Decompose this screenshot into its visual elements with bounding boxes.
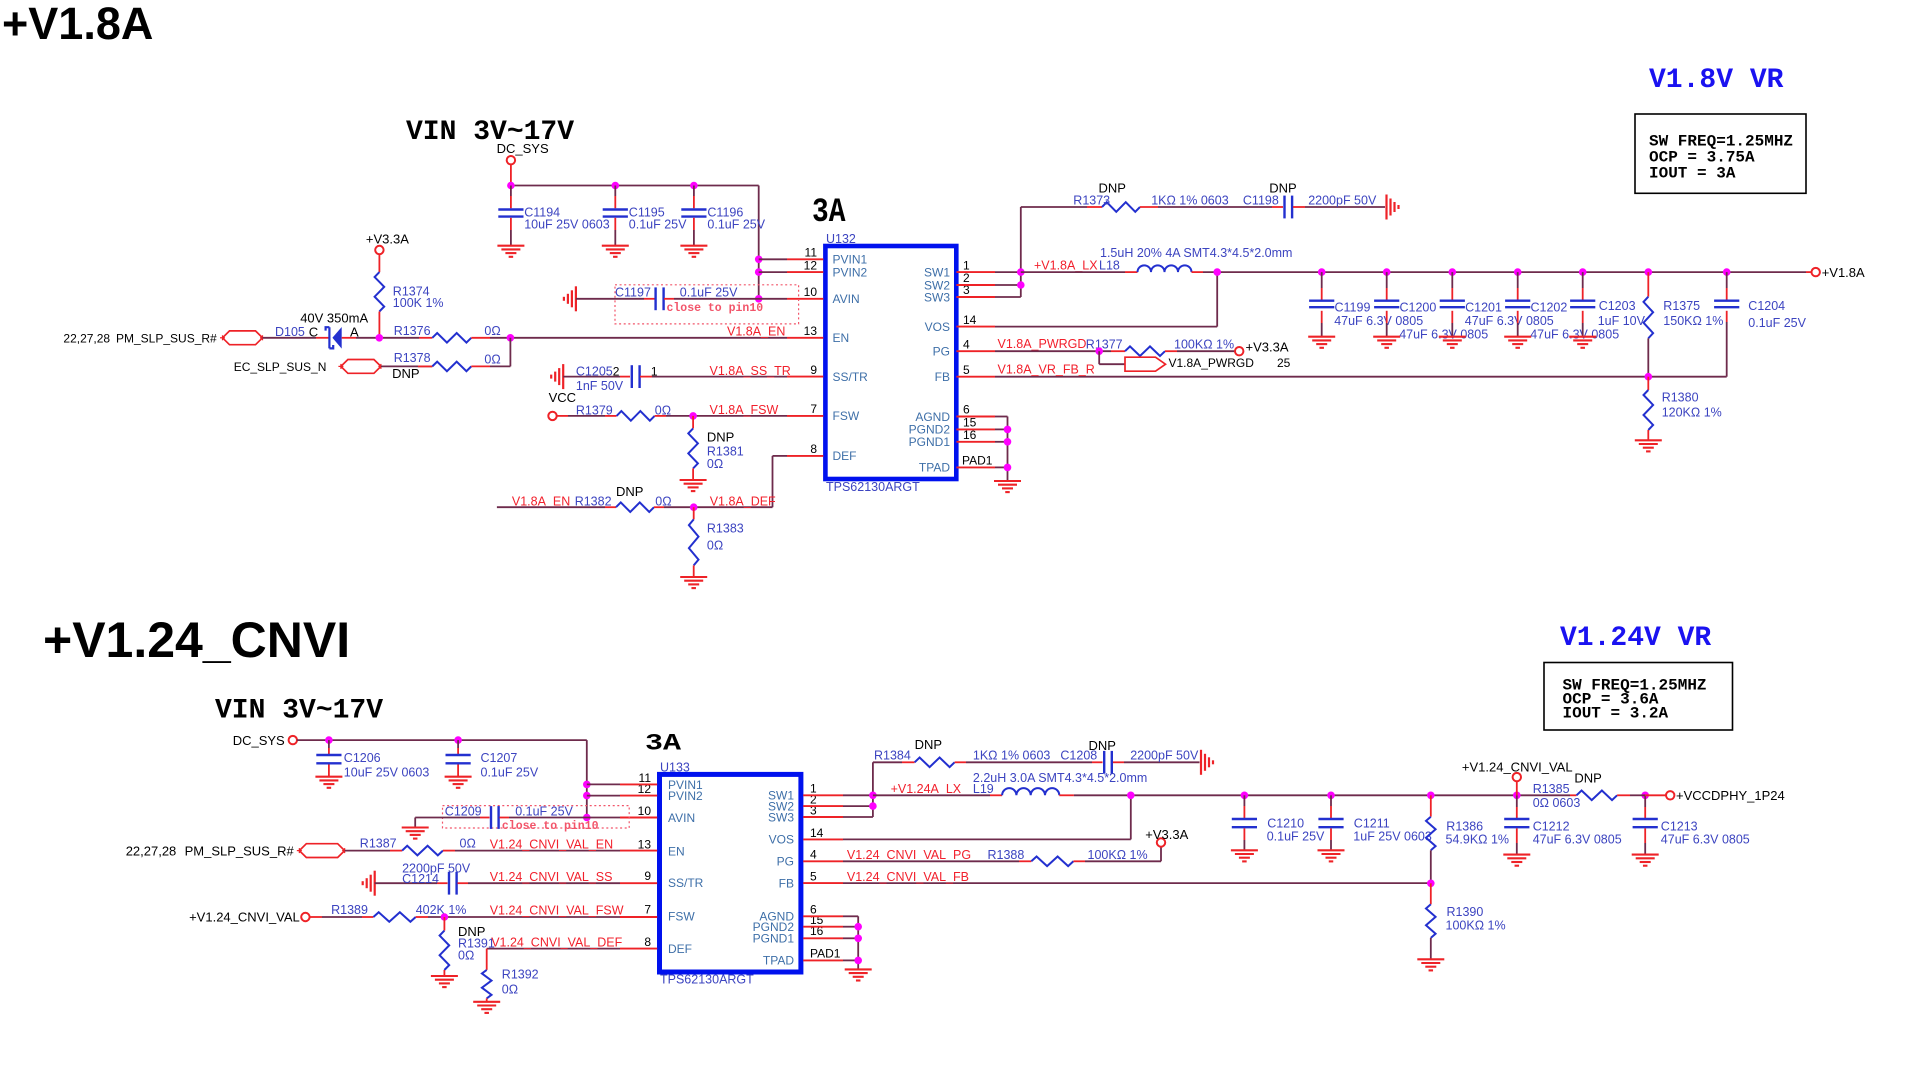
svg-text:+V1.8A: +V1.8A	[1822, 265, 1865, 280]
resistor R1376	[393, 324, 501, 343]
svg-text:DNP: DNP	[392, 366, 419, 381]
net label V1.8A_VR_FB_R	[998, 362, 1095, 376]
ground under C1212	[1503, 855, 1530, 866]
junction dots PGND (bottom)	[854, 923, 862, 964]
svg-text:0.1uF 25V: 0.1uF 25V	[481, 766, 539, 780]
svg-text:DEF: DEF	[833, 449, 857, 463]
inductor L18	[1021, 246, 1322, 272]
connector arrow V1.8A_PWRGD	[1125, 356, 1291, 371]
svg-text:8: 8	[810, 442, 817, 456]
svg-text:100KΩ 1%: 100KΩ 1%	[1088, 848, 1148, 862]
svg-text:100KΩ 1%: 100KΩ 1%	[1446, 919, 1506, 933]
svg-text:120KΩ 1%: 120KΩ 1%	[1662, 406, 1722, 420]
svg-text:FSW: FSW	[668, 910, 695, 924]
svg-text:4: 4	[963, 337, 970, 351]
svg-text:0Ω: 0Ω	[484, 352, 500, 366]
junction R1381/FSW	[689, 412, 697, 420]
net label V1.8A_DEF	[710, 494, 776, 508]
svg-text:+V1.24A_LX: +V1.24A_LX	[891, 782, 962, 796]
U133 right pin names	[753, 789, 795, 968]
svg-text:13: 13	[638, 837, 652, 851]
svg-text:100K 1%: 100K 1%	[393, 296, 444, 310]
U133 pin numbers	[638, 771, 841, 961]
svg-text:VCC: VCC	[549, 390, 576, 405]
junction dots +V1.8A rail	[1318, 268, 1731, 276]
svg-text:C1203: C1203	[1599, 299, 1636, 313]
svg-text:0.1uF 25V: 0.1uF 25V	[1748, 316, 1806, 330]
net label V1.8A_EN	[727, 325, 785, 339]
ground under C1206	[315, 777, 342, 788]
wire FSW net to pin 7	[666, 415, 787, 417]
capacitor C1198 (DNP snubber)	[1158, 181, 1385, 219]
ground at C1209	[402, 828, 429, 839]
node EC_SLP_SUS_N	[234, 360, 384, 374]
capacitor C1200	[1374, 272, 1488, 341]
svg-text:1KΩ 1% 0603: 1KΩ 1% 0603	[973, 749, 1051, 763]
wire AGND/PGND group (bottom)	[843, 916, 858, 969]
junction R1378/EN	[507, 334, 515, 342]
net label +V1.8A_LX	[1034, 258, 1098, 272]
svg-text:C1207: C1207	[481, 751, 518, 765]
title +V1.8A	[2, 0, 153, 49]
ground under R1392	[473, 1002, 500, 1013]
svg-text:2200pF 50V: 2200pF 50V	[1130, 749, 1199, 763]
svg-text:3A: 3A	[812, 194, 846, 232]
svg-text:SS/TR: SS/TR	[668, 876, 704, 890]
capacitor C1211	[1318, 795, 1431, 850]
svg-text:14: 14	[810, 826, 824, 840]
wire PM_SLP_SUS_R# to diode	[263, 337, 330, 339]
capacitor C1213	[1633, 795, 1750, 854]
svg-text:DNP: DNP	[915, 737, 942, 752]
svg-text:DC_SYS: DC_SYS	[497, 141, 549, 156]
wire VOS sense (top)	[995, 272, 1217, 327]
svg-text:FSW: FSW	[833, 409, 860, 423]
svg-text:150KΩ 1%: 150KΩ 1%	[1663, 314, 1723, 328]
svg-text:C1201: C1201	[1465, 301, 1502, 315]
svg-text:U132: U132	[826, 232, 856, 246]
svg-text:10uF 25V 0603: 10uF 25V 0603	[344, 766, 430, 780]
net label V1.24_CNVI_VAL_FB	[847, 870, 969, 884]
svg-text:+V1.24_CNVI: +V1.24_CNVI	[43, 612, 350, 668]
junction dots on DC_SYS bus (top)	[507, 182, 698, 190]
capacitor C1205	[563, 364, 787, 393]
svg-text:1: 1	[651, 364, 658, 378]
svg-text:12: 12	[804, 258, 818, 272]
wire SW1/SW2/SW3 to LX node	[995, 207, 1021, 297]
svg-text:1uF 25V 0603: 1uF 25V 0603	[1353, 830, 1432, 844]
svg-text:C1213: C1213	[1661, 820, 1698, 834]
svg-text:DNP: DNP	[1089, 738, 1116, 753]
svg-text:0Ω: 0Ω	[655, 494, 671, 508]
capacitor C1203	[1570, 272, 1646, 336]
capacitor C1208 (DNP snubber)	[966, 738, 1200, 774]
svg-text:IOUT = 3A: IOUT = 3A	[1649, 165, 1736, 183]
svg-text:3A: 3A	[645, 731, 681, 757]
svg-text:5: 5	[810, 870, 817, 884]
svg-text:TPAD: TPAD	[919, 461, 950, 475]
wire +V1.8A output rail	[1322, 271, 1812, 273]
svg-text:100KΩ 1%: 100KΩ 1%	[1174, 338, 1234, 352]
IC U133 TPS62130ARGT	[660, 760, 801, 986]
svg-text:1nF 50V: 1nF 50V	[576, 379, 624, 393]
svg-text:EN: EN	[833, 331, 850, 345]
svg-text:C1206: C1206	[344, 751, 381, 765]
U133 left pin stubs	[620, 784, 657, 948]
svg-text:1.5uH 20% 4A SMT4.3*4.5*2.0mm: 1.5uH 20% 4A SMT4.3*4.5*2.0mm	[1100, 246, 1292, 260]
svg-text:22,27,28: 22,27,28	[63, 331, 110, 345]
wire PVIN2 (top)	[759, 271, 787, 273]
svg-text:C1199: C1199	[1335, 301, 1371, 315]
svg-text:D105: D105	[275, 325, 305, 339]
net label V1.24_CNVI_VAL_EN	[490, 837, 613, 851]
resistor R1381 (DNP)	[688, 416, 743, 480]
svg-text:C1209: C1209	[445, 805, 482, 819]
svg-text:DNP: DNP	[1099, 181, 1126, 196]
terminal VCC (FSW input)	[548, 412, 605, 420]
resistor R1383	[689, 507, 744, 577]
U133 left pin names	[668, 778, 704, 956]
svg-text:SW3: SW3	[768, 810, 794, 824]
svg-text:8: 8	[644, 935, 651, 949]
svg-text:54.9KΩ 1%: 54.9KΩ 1%	[1446, 833, 1510, 847]
net label V1.24_CNVI_VAL_FSW	[490, 904, 624, 918]
capacitor C1196	[681, 186, 765, 246]
svg-text:V1.8A_VR_FB_R: V1.8A_VR_FB_R	[998, 362, 1095, 376]
ground under C1211	[1318, 850, 1345, 861]
svg-text:+V3.3A: +V3.3A	[1246, 340, 1289, 355]
svg-text:2.2uH 3.0A SMT4.3*4.5*2.0mm: 2.2uH 3.0A SMT4.3*4.5*2.0mm	[973, 771, 1147, 785]
svg-text:L18: L18	[1099, 258, 1120, 272]
svg-text:PVIN2: PVIN2	[833, 265, 868, 279]
svg-text:V1.24_CNVI_VAL_EN: V1.24_CNVI_VAL_EN	[490, 837, 613, 851]
svg-text:PGND1: PGND1	[753, 932, 795, 946]
junction dots PVIN1/PVIN2/AVIN (bottom)	[583, 781, 591, 822]
wire DC_SYS input bus (top)	[511, 186, 759, 299]
svg-text:C1200: C1200	[1400, 301, 1437, 315]
svg-text:DNP: DNP	[1574, 770, 1601, 785]
svg-text:0.1uF 25V: 0.1uF 25V	[515, 805, 573, 819]
resistor R1390	[1426, 883, 1506, 959]
ground under C1196	[680, 246, 707, 257]
svg-text:R1382: R1382	[575, 494, 612, 508]
resistor R1392	[482, 968, 539, 1002]
svg-text:2: 2	[613, 364, 620, 378]
capacitor C1199	[1309, 272, 1423, 336]
svg-text:AVIN: AVIN	[833, 292, 860, 306]
svg-text:C1212: C1212	[1533, 820, 1570, 834]
svg-text:0.1uF 25V: 0.1uF 25V	[1267, 830, 1325, 844]
svg-text:R1376: R1376	[394, 324, 431, 338]
svg-text:SW3: SW3	[924, 290, 950, 304]
svg-text:0Ω: 0Ω	[502, 983, 518, 997]
svg-text:AVIN: AVIN	[668, 811, 695, 825]
capacitor C1197	[576, 286, 787, 311]
svg-text:DEF: DEF	[668, 942, 692, 956]
svg-text:R1392: R1392	[502, 968, 539, 982]
junction dots SW1 SW2 (bottom)	[869, 792, 877, 810]
ground at TPAD (top)	[994, 481, 1021, 492]
ground under C1199	[1308, 337, 1335, 348]
capacitor C1214	[375, 862, 620, 895]
svg-text:VOS: VOS	[925, 320, 950, 334]
svg-text:DNP: DNP	[1269, 181, 1296, 196]
ground under C1200	[1373, 337, 1400, 348]
net label V1.8A_EN (left stub)	[512, 494, 570, 508]
terminal +VCCDPHY_1P24	[1645, 788, 1785, 803]
junction R1391/FSW	[441, 913, 449, 921]
svg-text:R1390: R1390	[1447, 905, 1484, 919]
ground under C1201	[1439, 337, 1466, 348]
svg-text:TPAD: TPAD	[763, 954, 794, 968]
resistor R1389	[331, 903, 620, 922]
svg-text:C: C	[309, 325, 318, 340]
inductor L19	[873, 771, 1245, 796]
svg-text:C1214: C1214	[402, 872, 439, 886]
ground under C1202	[1504, 337, 1531, 348]
svg-text:R1389: R1389	[331, 903, 368, 917]
svg-text:FB: FB	[779, 876, 794, 890]
terminal +V3.3A (PG pullup)	[1235, 340, 1289, 356]
svg-text:1KΩ 1% 0603: 1KΩ 1% 0603	[1151, 194, 1229, 208]
resistor R1373 (DNP snubber)	[1021, 181, 1229, 212]
resistor R1374	[375, 272, 444, 338]
U132 right pin names	[909, 265, 951, 474]
wire FB net (top)	[995, 376, 1727, 378]
svg-text:DC_SYS: DC_SYS	[233, 733, 285, 748]
svg-text:PGND1: PGND1	[909, 435, 951, 449]
svg-text:AGND: AGND	[915, 410, 950, 424]
svg-text:V1.8A_PWRGD: V1.8A_PWRGD	[998, 337, 1087, 351]
junction dots PGND (top)	[1004, 426, 1012, 472]
svg-text:EC_SLP_SUS_N: EC_SLP_SUS_N	[234, 360, 327, 374]
svg-text:40V 350mA: 40V 350mA	[300, 311, 368, 326]
U132 left pin names	[833, 253, 869, 464]
svg-text:V1.24_CNVI_VAL_SS: V1.24_CNVI_VAL_SS	[490, 870, 613, 884]
svg-text:V1.8A_FSW: V1.8A_FSW	[710, 403, 779, 417]
wire FB net (bottom)	[843, 882, 1431, 884]
svg-text:U133: U133	[660, 760, 690, 774]
spec box V1.24V VR	[1544, 663, 1733, 731]
svg-text:C1205: C1205	[576, 364, 613, 378]
svg-text:EN: EN	[668, 844, 685, 858]
svg-text:VOS: VOS	[769, 833, 794, 847]
svg-text:4: 4	[810, 848, 817, 862]
net label +V1.24A_LX	[891, 782, 962, 796]
svg-text:R1375: R1375	[1663, 299, 1700, 313]
junction PG/PWRGD branch	[1095, 347, 1103, 355]
wire diode anode to EN net	[342, 337, 393, 339]
svg-text:V1.24_CNVI_VAL_FB: V1.24_CNVI_VAL_FB	[847, 870, 969, 884]
resistor R1382 (DNP)	[575, 484, 672, 512]
wire V1.24_CNVI_VAL_DEF net	[487, 949, 620, 970]
dotted box close to pin10 (bottom)	[443, 806, 630, 828]
svg-text:C1210: C1210	[1267, 817, 1304, 831]
label VCC	[549, 390, 576, 405]
svg-text:47uF 6.3V 0805: 47uF 6.3V 0805	[1661, 833, 1750, 847]
wire SW1/SW2/SW3 to LX node (bottom)	[843, 762, 873, 817]
capacitor C1207	[446, 740, 539, 779]
svg-text:+V3.3A: +V3.3A	[1145, 827, 1188, 842]
svg-text:close to pin10: close to pin10	[502, 820, 599, 833]
svg-text:C1202: C1202	[1531, 301, 1568, 315]
junction R1374/EN	[376, 334, 384, 342]
svg-text:V1.8A_EN: V1.8A_EN	[727, 325, 785, 339]
svg-text:DNP: DNP	[707, 430, 734, 445]
svg-text:10: 10	[638, 804, 652, 818]
svg-text:+V1.24_CNVI_VAL: +V1.24_CNVI_VAL	[189, 910, 300, 925]
svg-text:C1204: C1204	[1748, 299, 1785, 313]
capacitor C1202	[1505, 272, 1619, 341]
ground at C1198 (sideways)	[1387, 195, 1399, 220]
junction R1383/DEF	[690, 503, 698, 511]
svg-text:9: 9	[644, 869, 651, 883]
resistor R1388	[843, 847, 1161, 866]
junction dots +V1.24 rail	[1241, 792, 1649, 800]
wire EN net to pin 13	[490, 337, 787, 339]
ground under C1194	[497, 246, 524, 257]
net label close to pin10 (bottom)	[502, 820, 599, 833]
svg-text:14: 14	[963, 313, 977, 327]
resistor R1379	[576, 403, 671, 420]
capacitor C1212	[1504, 795, 1622, 854]
wire PVIN2 (bottom)	[587, 795, 620, 797]
svg-text:TPS62130ARGT: TPS62130ARGT	[660, 973, 754, 987]
terminal DC_SYS (bottom)	[233, 733, 297, 748]
svg-text:0.1uF 25V: 0.1uF 25V	[680, 286, 738, 300]
svg-text:7: 7	[810, 402, 817, 416]
U132 right pin stubs	[956, 272, 995, 467]
U132 pin numbers	[804, 246, 993, 468]
ground under R1391	[431, 976, 458, 987]
wire PVIN1 (top)	[759, 258, 787, 260]
svg-text:V1.8A_EN: V1.8A_EN	[512, 494, 570, 508]
svg-text:FB: FB	[935, 370, 950, 384]
resistor R1385 (DNP)	[1533, 770, 1646, 810]
capacitor C1204	[1714, 272, 1807, 377]
resistor R1384 (DNP snubber)	[873, 737, 1051, 767]
wire DC_SYS input bus (bottom)	[297, 740, 587, 817]
svg-text:+V1.8A: +V1.8A	[2, 0, 153, 49]
wire +V1.24 output rail	[1244, 794, 1570, 796]
junction dots on DC_SYS bus (bottom)	[325, 736, 462, 744]
ground at C1197	[564, 286, 576, 311]
node PM_SLP_SUS_R# (top)	[63, 331, 265, 345]
resistor R1378 (DNP)	[381, 338, 510, 381]
svg-text:R1386: R1386	[1446, 820, 1483, 834]
node PM_SLP_SUS_R# (bottom)	[126, 843, 347, 858]
svg-text:402K 1%: 402K 1%	[416, 903, 467, 917]
svg-text:V1.24_CNVI_VAL_PG: V1.24_CNVI_VAL_PG	[847, 848, 971, 862]
diode D105	[275, 311, 368, 349]
svg-text:47uF 6.3V 0805: 47uF 6.3V 0805	[1465, 314, 1554, 328]
net label V1.8A_FSW	[710, 403, 779, 417]
wire AGND/PGND group (top)	[995, 417, 1008, 482]
svg-text:V1.8A_DEF: V1.8A_DEF	[710, 494, 776, 508]
svg-text:PM_SLP_SUS_R#: PM_SLP_SUS_R#	[185, 843, 295, 858]
svg-text:R1388: R1388	[988, 848, 1025, 862]
svg-text:0Ω: 0Ω	[460, 837, 476, 851]
svg-text:PAD1: PAD1	[962, 454, 993, 468]
svg-text:0Ω: 0Ω	[484, 324, 500, 338]
title VIN 3V~17V (top)	[406, 117, 574, 148]
svg-text:10uF 25V 0603: 10uF 25V 0603	[524, 218, 610, 232]
junction R1375/FB	[1645, 373, 1653, 381]
svg-text:V1.24_CNVI_VAL_DEF: V1.24_CNVI_VAL_DEF	[491, 935, 622, 949]
svg-text:V1.24V VR: V1.24V VR	[1560, 623, 1711, 654]
ground at C1214	[363, 871, 375, 896]
svg-text:6: 6	[963, 403, 970, 417]
terminal +V3.3A (bottom PG pullup)	[1145, 827, 1188, 847]
svg-text:V1.8A_PWRGD: V1.8A_PWRGD	[1169, 356, 1255, 370]
title VIN 3V~17V (bottom)	[215, 696, 383, 727]
capacitor C1206	[316, 740, 429, 779]
ground at C1205	[551, 364, 563, 389]
svg-text:0.1uF 25V: 0.1uF 25V	[629, 218, 687, 232]
svg-text:R1384: R1384	[874, 749, 911, 763]
ground under C1195	[602, 246, 629, 257]
svg-text:V1.8A_SS_TR: V1.8A_SS_TR	[710, 364, 791, 378]
svg-text:VIN 3V~17V: VIN 3V~17V	[215, 696, 383, 727]
title +V1.24_CNVI	[43, 612, 350, 668]
terminal +V1.24_CNVI_VAL (FSW input)	[189, 910, 362, 925]
svg-text:PM_SLP_SUS_R#: PM_SLP_SUS_R#	[116, 331, 217, 345]
ground at TPAD (bottom)	[845, 969, 872, 980]
svg-text:R1379: R1379	[576, 403, 613, 417]
svg-text:0Ω: 0Ω	[458, 948, 474, 962]
ground under C1207	[445, 777, 472, 788]
capacitor C1210	[1232, 795, 1325, 850]
svg-text:SS/TR: SS/TR	[833, 370, 869, 384]
svg-text:PVIN2: PVIN2	[668, 789, 703, 803]
svg-text:5: 5	[963, 363, 970, 377]
svg-text:47uF 6.3V 0805: 47uF 6.3V 0805	[1334, 314, 1423, 328]
junction R1386/FB	[1427, 880, 1435, 888]
resistor R1386	[1426, 795, 1509, 883]
svg-text:IOUT = 3.2A: IOUT = 3.2A	[1563, 705, 1669, 723]
title 3A (top)	[812, 194, 846, 232]
junction L19 output	[1127, 792, 1135, 800]
wire VOS sense (bottom)	[843, 795, 1131, 839]
net label V1.24_CNVI_VAL_DEF	[491, 935, 622, 949]
svg-text:0Ω 0603: 0Ω 0603	[1533, 796, 1581, 810]
net label V1.24_CNVI_VAL_SS	[490, 870, 613, 884]
ground under C1210	[1231, 850, 1258, 861]
svg-text:R1387: R1387	[360, 837, 397, 851]
net label V1.24_CNVI_VAL_PG	[847, 848, 971, 862]
capacitor C1201	[1440, 272, 1554, 336]
spec box V1.8V VR	[1635, 114, 1806, 193]
resistor R1375	[1644, 272, 1724, 377]
svg-text:7: 7	[644, 903, 651, 917]
svg-text:R1380: R1380	[1662, 391, 1699, 405]
svg-text:SW1: SW1	[924, 265, 950, 279]
svg-text:C1211: C1211	[1354, 817, 1390, 831]
terminal +V1.24_CNVI_VAL (output)	[1462, 760, 1573, 796]
wire V1.8A_DEF net	[497, 456, 787, 507]
U132 left pin stubs	[787, 259, 823, 456]
wire PG to PWRGD arrow	[1099, 351, 1125, 364]
capacitor C1194	[498, 186, 609, 246]
U133 right pin stubs	[803, 795, 843, 960]
svg-text:1: 1	[963, 258, 970, 272]
resistor R1380	[1644, 377, 1722, 441]
ground under C1203	[1569, 337, 1596, 348]
svg-text:R1378: R1378	[394, 351, 431, 365]
svg-text:TPS62130ARGT: TPS62130ARGT	[826, 480, 920, 494]
svg-text:0.1uF 25V: 0.1uF 25V	[707, 218, 765, 232]
resistor R1387	[345, 837, 620, 856]
